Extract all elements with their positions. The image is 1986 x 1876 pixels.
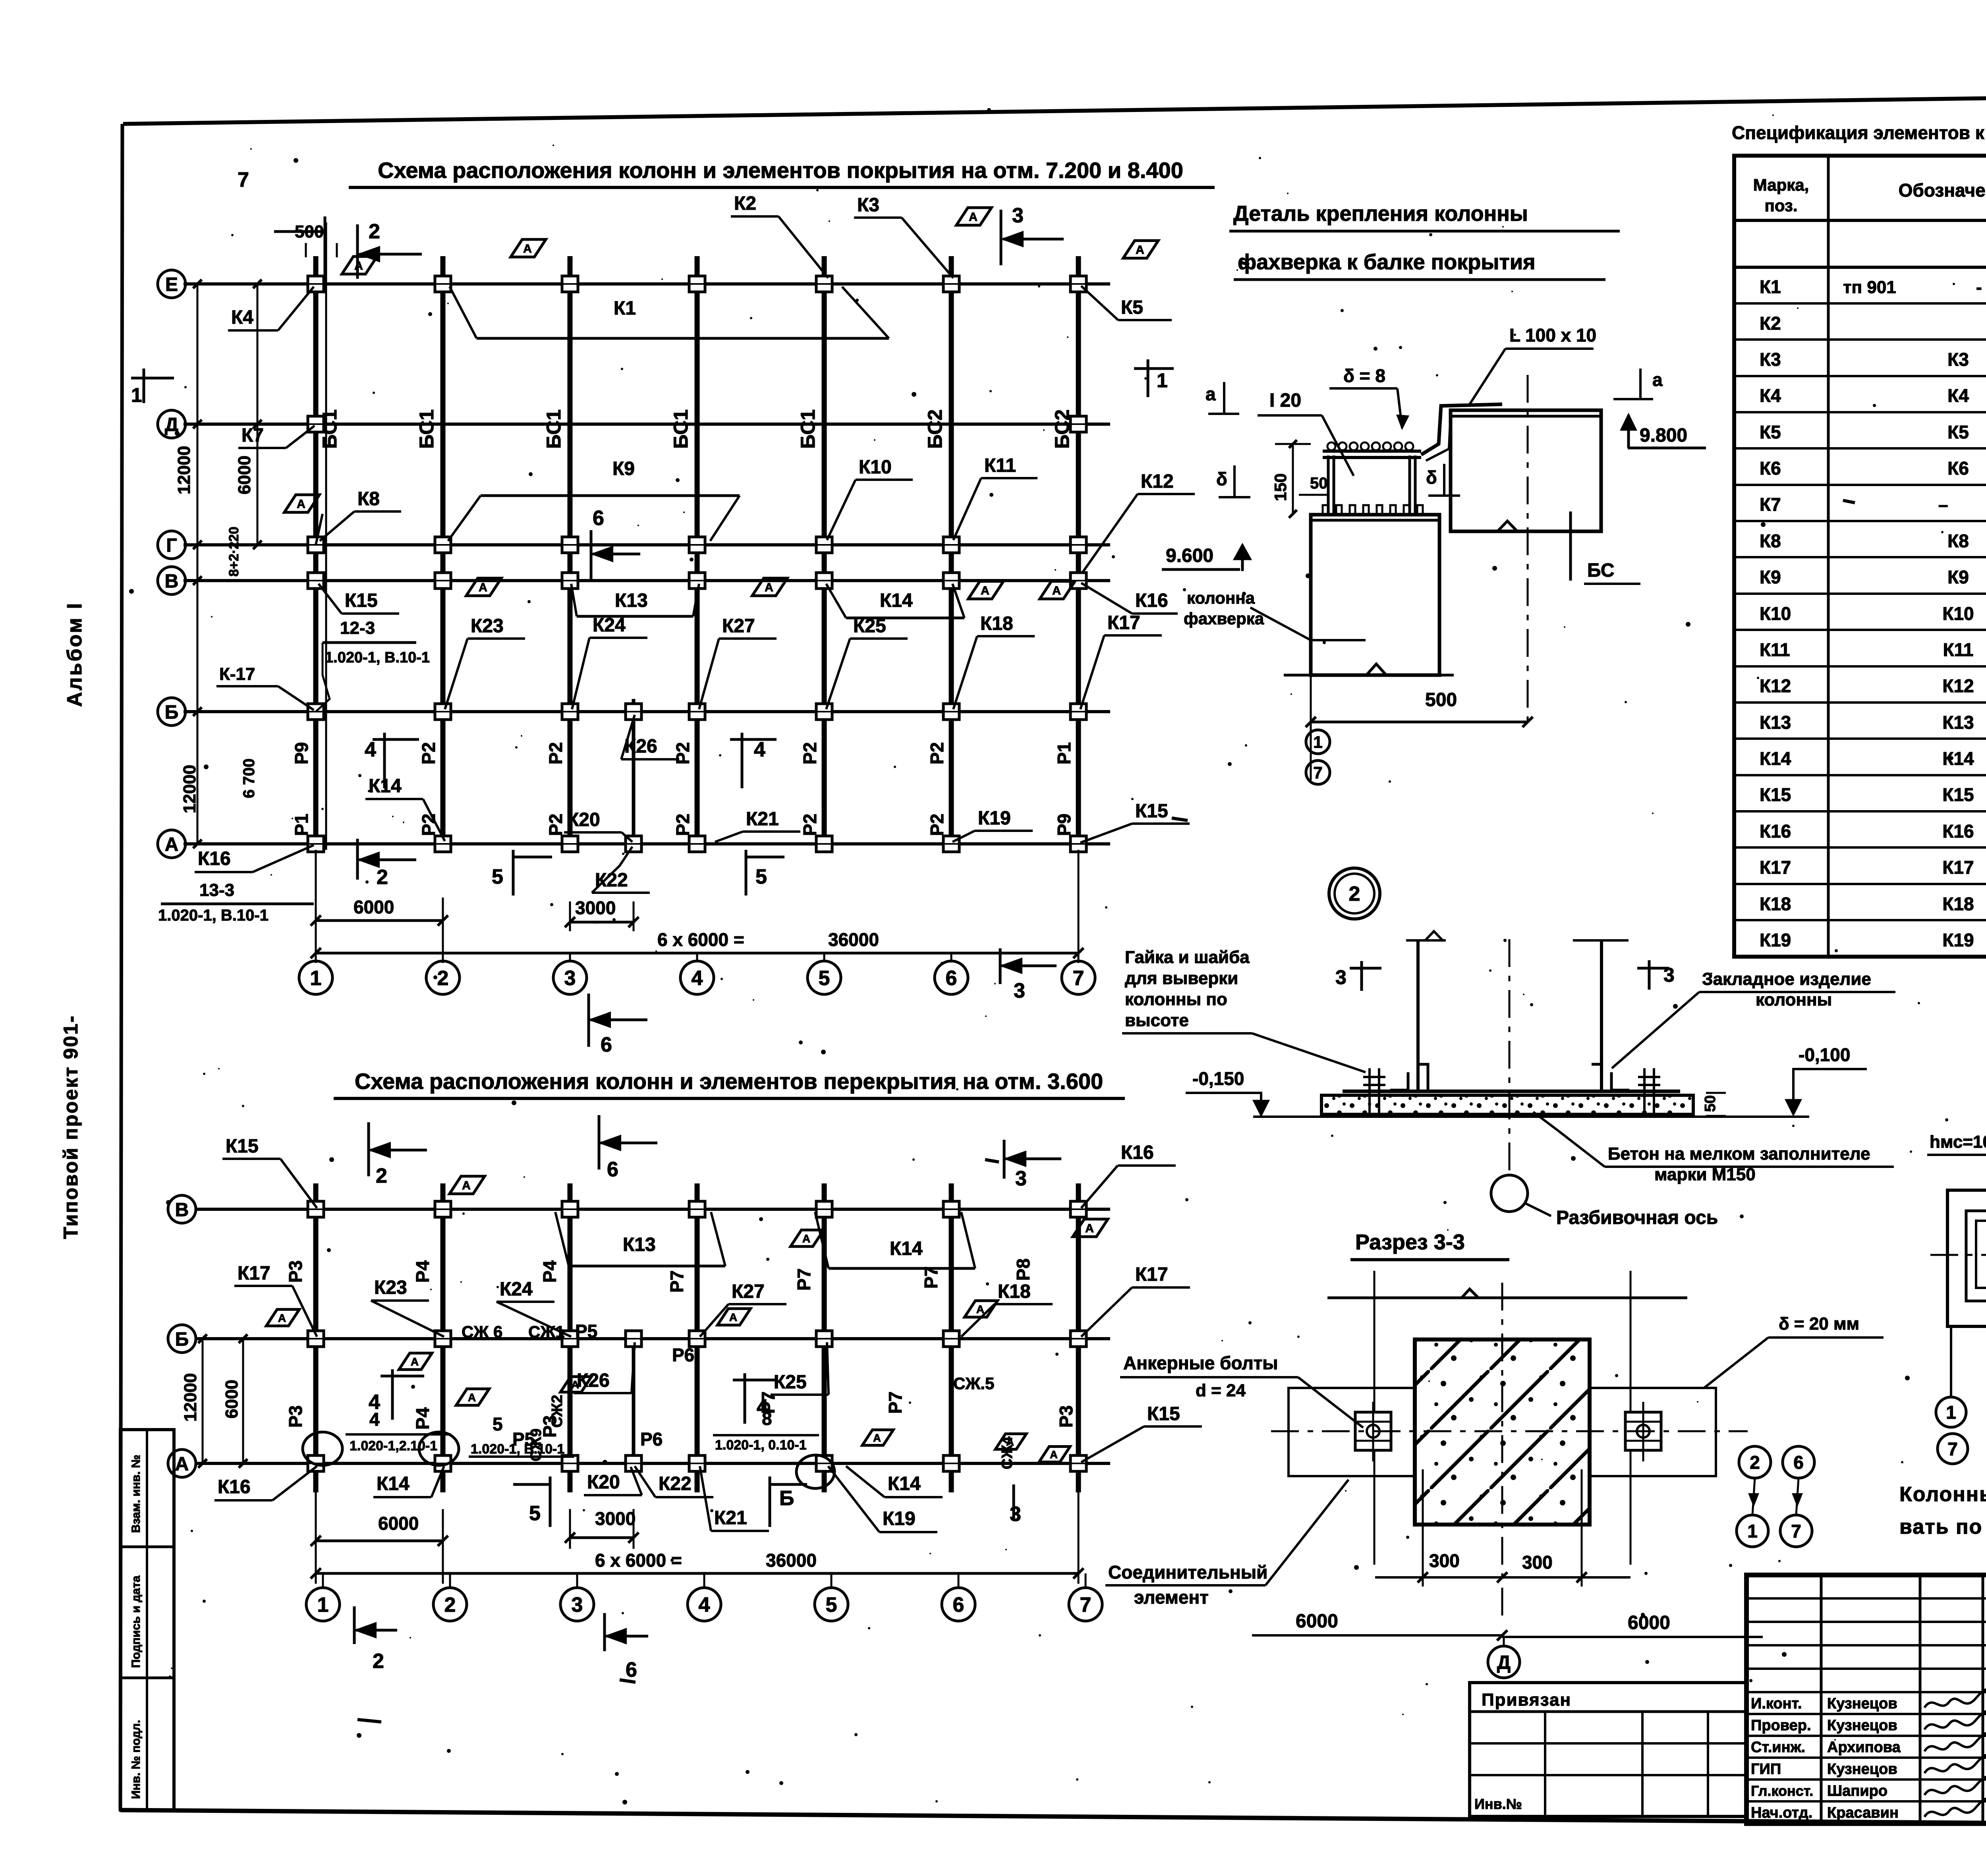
table row К6	[1734, 447, 1986, 450]
column square axis Е	[943, 276, 959, 292]
svg-text:6000: 6000	[1628, 1612, 1670, 1633]
column square axis А (scheme 2)	[626, 1455, 641, 1471]
column line axis 1	[313, 256, 319, 850]
table row К11	[1734, 629, 1986, 631]
svg-text:6: 6	[593, 507, 604, 530]
svg-text:Красавин: Красавин	[1827, 1805, 1899, 1821]
svg-text:I 20: I 20	[1269, 390, 1301, 411]
svg-text:50: 50	[1310, 475, 1328, 492]
axis circle Б	[158, 698, 185, 726]
mounting flag А	[717, 1309, 750, 1325]
svg-text:1.020-1,2.10-1: 1.020-1,2.10-1	[350, 1438, 437, 1453]
right anchor bolt	[1625, 1412, 1661, 1450]
svg-text:СЖ.5: СЖ.5	[953, 1374, 994, 1393]
svg-text:К13: К13	[615, 590, 648, 611]
svg-text:К17: К17	[238, 1263, 270, 1284]
svg-text:5: 5	[492, 865, 503, 888]
axis line Г	[184, 543, 1110, 546]
roof beam block	[1451, 410, 1601, 531]
column square axis А	[689, 836, 705, 852]
svg-text:А: А	[729, 1311, 737, 1323]
svg-text:Провер.: Провер.	[1751, 1717, 1811, 1734]
table row К18	[1734, 883, 1986, 885]
svg-text:К1: К1	[614, 298, 636, 319]
svg-text:Схема расположения колонн и эл: Схема расположения колонн и элементов пе…	[355, 1069, 1103, 1094]
svg-text:Инв.№: Инв.№	[1474, 1796, 1522, 1812]
svg-text:К27: К27	[732, 1281, 765, 1302]
svg-text:6 700: 6 700	[240, 759, 258, 798]
svg-text:Р4: Р4	[539, 1260, 560, 1283]
svg-text:вать по значку: вать по значку	[1899, 1515, 1986, 1538]
svg-text:4: 4	[365, 738, 376, 761]
mounting flag А	[862, 1430, 893, 1446]
axis line А (scheme 2)	[195, 1462, 1110, 1465]
svg-text:6000: 6000	[1296, 1611, 1338, 1632]
mounting flag А	[560, 1377, 591, 1392]
svg-text:К8: К8	[357, 488, 380, 510]
svg-text:Р6: Р6	[640, 1429, 663, 1449]
bolt circles on plate	[1327, 442, 1335, 450]
spec table frame	[1734, 156, 1986, 957]
svg-text:К2: К2	[1760, 313, 1781, 334]
svg-text:А: А	[802, 1232, 810, 1245]
staff row lines	[1746, 1713, 1986, 1715]
sheet bottom border	[120, 1810, 1986, 1827]
svg-text:Деталь крепления колонны: Деталь крепления колонны	[1233, 202, 1528, 226]
svg-text:2: 2	[377, 866, 388, 889]
mounting flag А	[956, 208, 991, 225]
svg-text:300: 300	[1429, 1550, 1460, 1571]
svg-text:К27: К27	[722, 616, 755, 637]
svg-text:Разрез 3-3: Разрез 3-3	[1355, 1230, 1465, 1254]
svg-text:тп 901: тп 901	[1843, 278, 1896, 297]
table row К16	[1734, 810, 1986, 813]
spec table header row	[1734, 219, 1986, 222]
svg-text:6000: 6000	[378, 1513, 419, 1534]
svg-text:К7: К7	[1760, 494, 1781, 515]
svg-text:4: 4	[369, 1409, 380, 1430]
column square axis Д	[308, 416, 324, 432]
svg-text:БС1: БС1	[543, 409, 565, 449]
svg-text:Анкерные болты: Анкерные болты	[1123, 1353, 1278, 1373]
table row К13	[1734, 701, 1986, 704]
svg-text:8+2·220: 8+2·220	[226, 527, 241, 577]
svg-text:Б: Б	[779, 1487, 794, 1510]
svg-text:СЖ1: СЖ1	[528, 1322, 565, 1341]
svg-text:Р6: Р6	[672, 1345, 694, 1365]
svg-text:5: 5	[529, 1502, 541, 1525]
svg-text:Р8: Р8	[1013, 1258, 1034, 1281]
column square axis В (scheme 2)	[689, 1201, 705, 1217]
table row К8	[1734, 520, 1986, 522]
mounting flag А	[1039, 1447, 1070, 1462]
bent connector plate	[1421, 404, 1502, 455]
svg-text:2: 2	[444, 1594, 456, 1617]
svg-text:А: А	[479, 581, 487, 594]
svg-text:Р9: Р9	[291, 742, 312, 764]
svg-text:К11: К11	[1760, 639, 1790, 660]
svg-text:А: А	[468, 1391, 476, 1403]
svg-text:К12: К12	[1942, 676, 1974, 696]
centre axis of beam	[1527, 375, 1529, 721]
svg-text:7: 7	[1080, 1594, 1092, 1617]
svg-text:500: 500	[1425, 689, 1457, 710]
left connection plate	[1289, 1388, 1415, 1476]
sheet left border	[120, 124, 122, 1810]
svg-text:Спецификация элементов к схема: Спецификация элементов к схемам располож…	[1732, 122, 1986, 143]
svg-text:Р1: Р1	[1054, 742, 1074, 764]
svg-text:Ст.инж.: Ст.инж.	[1751, 1739, 1805, 1756]
svg-text:А: А	[175, 1453, 189, 1475]
column square axis В (scheme 2)	[943, 1201, 959, 1217]
svg-text:36000: 36000	[828, 929, 879, 950]
svg-text:3: 3	[1014, 979, 1025, 1002]
table row К7	[1734, 484, 1986, 486]
column square axis Б (scheme 2)	[562, 1331, 578, 1347]
axis circle 7 (scheme 2)	[1069, 1588, 1102, 1621]
svg-text:А: А	[976, 1303, 984, 1315]
svg-text:К25: К25	[853, 616, 886, 637]
column square axis В	[816, 573, 832, 589]
svg-text:К11: К11	[984, 455, 1016, 476]
svg-text:Р3: Р3	[285, 1260, 306, 1283]
svg-text:Р2: Р2	[672, 814, 693, 836]
svg-text:500: 500	[295, 222, 324, 241]
svg-text:СЖ2: СЖ2	[549, 1395, 566, 1428]
column square axis Б	[562, 704, 578, 720]
column line axis 2 (scheme 2)	[440, 1183, 446, 1492]
axis circle А	[158, 830, 185, 858]
svg-text:3: 3	[564, 967, 576, 990]
mounting flag А	[342, 257, 377, 274]
svg-text:К26: К26	[624, 736, 657, 757]
centreline (view a-a)	[1930, 1254, 1986, 1256]
table row К17	[1734, 846, 1986, 849]
svg-text:6000: 6000	[235, 455, 254, 494]
svg-text:А: А	[165, 834, 179, 855]
svg-text:К16: К16	[1135, 590, 1168, 611]
column square axis Е	[689, 276, 705, 292]
column line axis 4	[695, 256, 700, 850]
svg-text:7: 7	[1947, 1439, 1958, 1459]
centrelines	[1271, 1430, 1748, 1432]
svg-text:Р3: Р3	[1056, 1405, 1076, 1428]
svg-text:колонна: колонна	[1187, 589, 1255, 607]
upper edge line	[1327, 1297, 1687, 1299]
svg-text:6: 6	[601, 1033, 612, 1056]
svg-text:Кузнецов: Кузнецов	[1827, 1761, 1897, 1778]
svg-text:Подпись и дата: Подпись и дата	[129, 1575, 143, 1668]
svg-text:1.020-1, В.10-1: 1.020-1, В.10-1	[325, 649, 430, 666]
svg-text:Р2: Р2	[927, 814, 947, 836]
svg-text:300: 300	[1522, 1552, 1553, 1573]
svg-text:d = 24: d = 24	[1196, 1381, 1246, 1400]
svg-text:К15: К15	[1760, 784, 1791, 805]
column line axis 1 (scheme 2)	[313, 1183, 319, 1492]
svg-text:А: А	[873, 1432, 881, 1444]
axis circle Е	[158, 270, 185, 298]
svg-text:Р2: Р2	[800, 742, 820, 764]
svg-text:К15: К15	[1942, 784, 1974, 805]
anchor oval node	[303, 1432, 342, 1465]
svg-text:Взам. инв. №: Взам. инв. №	[129, 1455, 143, 1533]
svg-text:К10: К10	[1942, 603, 1974, 624]
svg-text:9.800: 9.800	[1640, 425, 1687, 446]
svg-text:Р2: Р2	[672, 742, 693, 764]
svg-text:К18: К18	[980, 613, 1013, 634]
svg-text:7: 7	[1791, 1521, 1801, 1542]
table row К3	[1734, 338, 1986, 341]
svg-text:Соединительный: Соединительный	[1108, 1562, 1267, 1583]
svg-text:2: 2	[369, 220, 380, 243]
svg-text:2: 2	[1750, 1452, 1760, 1473]
svg-text:1.020-1, В.10-1: 1.020-1, В.10-1	[471, 1442, 564, 1457]
svg-text:Кузнецов: Кузнецов	[1827, 1717, 1897, 1734]
fachwerk column body	[1311, 515, 1439, 675]
svg-text:К21: К21	[714, 1507, 747, 1529]
svg-text:1: 1	[1747, 1521, 1758, 1542]
svg-text:Обозначение: Обозначение	[1899, 180, 1986, 201]
column square axis А (scheme 2)	[816, 1455, 832, 1471]
svg-text:БС2: БС2	[924, 409, 946, 449]
svg-text:Р3: Р3	[285, 1405, 306, 1428]
mounting flag А	[399, 1353, 432, 1370]
svg-text:К15: К15	[1135, 801, 1168, 822]
svg-text:К19: К19	[1942, 930, 1974, 950]
svg-text:элемент: элемент	[1134, 1587, 1209, 1608]
svg-text:1.020-1, 0.10-1: 1.020-1, 0.10-1	[715, 1438, 807, 1453]
svg-text:А: А	[462, 1179, 471, 1192]
axis line Д	[184, 423, 1110, 426]
svg-text:К19: К19	[1760, 930, 1791, 950]
column square axis Б (scheme 2)	[435, 1331, 451, 1347]
column square axis В (scheme 2)	[435, 1201, 451, 1217]
svg-text:50: 50	[1702, 1095, 1719, 1112]
mounting flag А	[266, 1309, 299, 1326]
column square axis Е	[562, 276, 578, 292]
svg-text:К5: К5	[1121, 297, 1143, 318]
svg-text:К14: К14	[377, 1473, 410, 1494]
svg-text:высоте: высоте	[1125, 1011, 1189, 1030]
svg-text:6: 6	[953, 1594, 964, 1617]
column square axis В	[689, 573, 705, 589]
table row К14	[1734, 737, 1986, 740]
svg-text:К16: К16	[1942, 821, 1974, 841]
column square axis Д	[1070, 416, 1086, 432]
svg-text:36000: 36000	[766, 1550, 817, 1571]
embedded angle right	[1611, 1072, 1629, 1090]
mounting flag А	[456, 1389, 489, 1405]
svg-text:6: 6	[607, 1158, 618, 1181]
svg-text:Разбивочная ось: Разбивочная ось	[1556, 1207, 1718, 1228]
svg-text:А: А	[411, 1355, 419, 1368]
svg-text:В: В	[175, 1199, 189, 1220]
svg-text:Инв. № подл.: Инв. № подл.	[129, 1720, 143, 1799]
svg-text:К14: К14	[1942, 748, 1974, 769]
svg-text:А: А	[1136, 243, 1144, 257]
svg-text:К12: К12	[1141, 471, 1174, 492]
column square axis А	[626, 836, 641, 852]
left dimension (scheme 2)	[202, 1339, 204, 1463]
svg-text:Марка,: Марка,	[1753, 176, 1809, 194]
table row К19	[1734, 919, 1986, 921]
axis line Е	[184, 282, 1110, 286]
svg-text:К10: К10	[1760, 603, 1791, 624]
column square axis А	[562, 836, 578, 852]
svg-text:1: 1	[1157, 369, 1168, 392]
table row К2	[1734, 302, 1986, 305]
svg-text:К5: К5	[1760, 422, 1781, 442]
svg-text:К14: К14	[369, 776, 402, 797]
mid column line 3000	[632, 699, 636, 848]
column square axis А	[943, 836, 959, 852]
table row К15	[1734, 774, 1986, 776]
axis circle 6	[935, 961, 968, 994]
axis circle В (scheme 2)	[168, 1195, 196, 1223]
svg-text:7: 7	[1313, 763, 1322, 782]
svg-text:К16: К16	[198, 848, 231, 869]
svg-text:5: 5	[755, 865, 767, 888]
embedded box inner	[1976, 1221, 1986, 1288]
svg-text:К3: К3	[857, 195, 879, 216]
svg-text:1: 1	[317, 1594, 329, 1617]
column line axis 7 (scheme 2)	[1076, 1183, 1081, 1492]
svg-text:К16: К16	[218, 1476, 251, 1498]
svg-text:К3: К3	[1760, 349, 1781, 370]
axis circle Г	[158, 531, 185, 559]
axis circle В	[158, 567, 185, 594]
ground line under fachwerk column	[1284, 674, 1304, 677]
svg-text:7: 7	[1073, 967, 1084, 990]
svg-text:4: 4	[699, 1594, 710, 1617]
svg-text:К14: К14	[888, 1473, 921, 1494]
svg-text:δ = 20 мм: δ = 20 мм	[1779, 1314, 1859, 1334]
svg-text:БС: БС	[1587, 560, 1615, 581]
svg-text:4: 4	[754, 738, 765, 761]
svg-text:Р1: Р1	[291, 814, 312, 836]
svg-text:9.600: 9.600	[1166, 545, 1213, 566]
beam support column below	[1569, 511, 1572, 581]
column square axis В (scheme 2)	[562, 1201, 578, 1217]
column square axis В	[435, 573, 451, 589]
svg-text:Р9: Р9	[1054, 814, 1074, 836]
column square axis Б	[626, 704, 641, 720]
svg-text:Привязан: Привязан	[1482, 1690, 1571, 1710]
svg-text:колонны по: колонны по	[1125, 990, 1227, 1009]
column square axis Г	[943, 537, 959, 553]
column cap bolts row	[1323, 505, 1328, 515]
mid column line (scheme 2)	[632, 1339, 636, 1467]
svg-text:7: 7	[238, 168, 249, 191]
column square axis Б (scheme 2)	[1070, 1331, 1086, 1347]
column square axis Б	[435, 704, 451, 720]
svg-text:поз.: поз.	[1764, 196, 1797, 215]
svg-text:К15: К15	[1147, 1403, 1180, 1424]
axis circle 4 (scheme 2)	[688, 1588, 721, 1621]
axis circle 1 (detail 1)	[1306, 730, 1330, 754]
column square axis А	[1070, 836, 1086, 852]
axis circle 1	[299, 961, 332, 994]
svg-text:- КЖИ.К1: - КЖИ.К1	[1976, 278, 1986, 297]
axis circle 2	[426, 961, 460, 994]
svg-text:К19: К19	[883, 1508, 916, 1529]
svg-text:А: А	[297, 498, 305, 511]
svg-text:А: А	[278, 1312, 286, 1324]
table row К12	[1734, 665, 1986, 668]
mounting flag А	[466, 578, 501, 596]
column square axis А	[816, 836, 832, 852]
svg-text:5: 5	[493, 1414, 503, 1434]
svg-text:К11: К11	[1943, 639, 1974, 660]
axis circle Д	[1488, 1646, 1520, 1678]
svg-text:К8: К8	[1760, 531, 1781, 551]
svg-text:Альбом I: Альбом I	[63, 602, 86, 707]
table row К5	[1734, 411, 1986, 413]
column square axis А (scheme 2)	[562, 1455, 578, 1471]
column line axis 3	[568, 256, 573, 850]
privyazan box	[1470, 1683, 1746, 1816]
svg-text:К24: К24	[593, 615, 626, 636]
column square axis А	[435, 836, 451, 852]
axis circle 7 (detail 1)	[1306, 760, 1330, 784]
svg-text:ГИП: ГИП	[1751, 1761, 1781, 1778]
svg-text:К14: К14	[890, 1238, 923, 1259]
column square axis А (scheme 2)	[689, 1455, 705, 1471]
svg-text:3: 3	[572, 1594, 583, 1617]
column shafts	[1416, 940, 1420, 1090]
embedded box middle	[1966, 1211, 1986, 1301]
svg-text:А: А	[523, 242, 532, 255]
svg-text:К22: К22	[659, 1473, 692, 1494]
svg-text:3: 3	[1010, 1503, 1021, 1526]
column square axis Е	[308, 276, 324, 292]
svg-text:А: А	[571, 1379, 579, 1391]
levelling bolts left	[1368, 1068, 1371, 1117]
svg-text:фахверка: фахверка	[1184, 609, 1264, 628]
column square axis Б	[816, 704, 832, 720]
svg-text:L 100 x 10: L 100 x 10	[1509, 325, 1596, 345]
mounting flag А	[752, 578, 787, 596]
svg-text:К14: К14	[1760, 748, 1791, 769]
column square axis В (scheme 2)	[816, 1201, 832, 1217]
svg-text:К13: К13	[623, 1234, 656, 1255]
right connection plate	[1590, 1388, 1716, 1476]
svg-text:Р2: Р2	[927, 742, 947, 764]
svg-text:Р2: Р2	[545, 742, 566, 764]
column line axis 2	[440, 256, 446, 850]
axis line В (scheme 2)	[195, 1208, 1110, 1211]
svg-text:К4: К4	[231, 307, 253, 328]
svg-text:А: А	[969, 210, 978, 224]
column square axis Г	[308, 537, 324, 553]
mounting flag А	[964, 1301, 997, 1317]
svg-text:1.020-1, В.10-1: 1.020-1, В.10-1	[158, 907, 269, 924]
column square axis А (scheme 2)	[943, 1455, 959, 1471]
svg-text:Типовой проект 901-: Типовой проект 901-	[60, 1015, 82, 1239]
svg-text:К1: К1	[1760, 276, 1781, 297]
svg-text:3000: 3000	[575, 897, 616, 918]
column square axis Г	[1070, 537, 1086, 553]
svg-text:К21: К21	[746, 809, 779, 830]
svg-text:К20: К20	[587, 1472, 620, 1493]
column square axis В (scheme 2)	[308, 1201, 324, 1217]
grout pad with dots	[1321, 1095, 1693, 1114]
svg-text:К14: К14	[880, 590, 913, 611]
column square axis Б (scheme 2)	[943, 1331, 959, 1347]
anchor oval node	[419, 1432, 459, 1465]
svg-text:Б: Б	[165, 702, 179, 723]
axis circle 1 (scheme 2)	[306, 1588, 340, 1621]
